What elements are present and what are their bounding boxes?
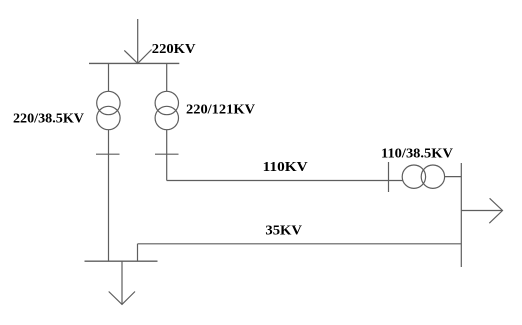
svg-text:110KV: 110KV bbox=[263, 160, 308, 175]
svg-text:110/38.5KV: 110/38.5KV bbox=[381, 147, 453, 162]
svg-text:35KV: 35KV bbox=[265, 223, 302, 238]
svg-text:220/121KV: 220/121KV bbox=[186, 103, 255, 118]
svg-text:220/38.5KV: 220/38.5KV bbox=[13, 112, 84, 127]
svg-text:220KV: 220KV bbox=[152, 42, 196, 57]
